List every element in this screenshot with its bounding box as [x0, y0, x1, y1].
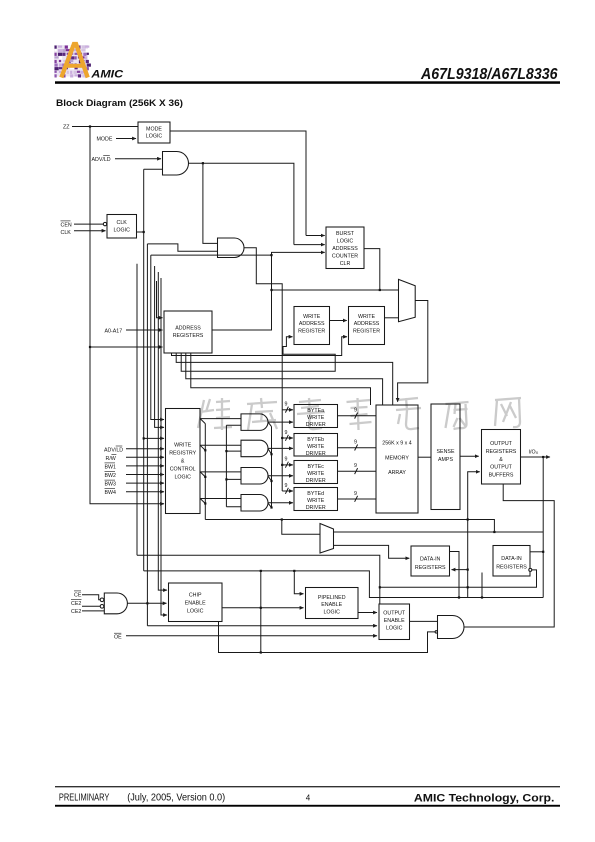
svg-text:9: 9: [354, 491, 357, 497]
svg-text:DRIVER: DRIVER: [306, 505, 326, 511]
wire bus vertical x158.3 to chip enable in1: [158, 272, 167, 590]
wire WAR1 to WAR2: [330, 320, 347, 322]
svg-text:ZZ: ZZ: [63, 124, 70, 130]
svg-text:ENABLE: ENABLE: [185, 601, 206, 607]
wire BW2 in: [126, 474, 164, 476]
BURST LOGIC ADDRESS COUNTER CLR U3: [326, 227, 364, 269]
mux M2: [320, 524, 334, 554]
wire memory to sense: [418, 456, 431, 458]
svg-text:BYTEb: BYTEb: [307, 437, 324, 443]
bubble data-in right clock: [529, 568, 532, 571]
and-gate G2: [218, 238, 245, 258]
wire write registry in from bus: [144, 437, 164, 439]
wire CE2bar in: [82, 605, 100, 607]
SENSE AMPS U13: [431, 404, 460, 510]
wire MODE LOGIC out to burst: [170, 131, 306, 236]
header rule: [55, 81, 560, 84]
svg-text:CHIP: CHIP: [189, 593, 202, 599]
svg-text:DATA-IN: DATA-IN: [501, 556, 522, 562]
svg-text:4: 4: [306, 793, 311, 802]
slash marks memory side: [355, 413, 358, 502]
svg-text:9: 9: [285, 430, 288, 436]
svg-text:CEN: CEN: [61, 222, 72, 228]
wire sense to output registers: [460, 455, 479, 457]
wire CE2 in: [82, 610, 104, 612]
wire 9-bus branches: [282, 409, 293, 411]
wire CLK LOGIC out: [137, 231, 144, 233]
svg-text:9: 9: [285, 457, 288, 463]
BYTEc WRITE DRIVER U10: [294, 461, 338, 485]
BYTEa WRITE DRIVER U8: [294, 405, 338, 429]
label ADV/LD 2: [104, 446, 123, 454]
svg-text:ADDRESS: ADDRESS: [299, 321, 325, 327]
OUTPUT REGISTERS & OUTPUT BUFFERS U14: [482, 430, 521, 485]
wire CE in: [82, 595, 100, 600]
bubble G5 in2: [435, 631, 437, 633]
wire address drop to memory 1: [176, 353, 393, 405]
svg-text:REGISTER: REGISTER: [353, 328, 380, 334]
svg-text:DRIVER: DRIVER: [306, 451, 326, 457]
wire y255 to x271.5: [151, 254, 272, 256]
svg-text:CONTROL: CONTROL: [170, 467, 196, 473]
BYTEd WRITE DRIVER U11: [294, 488, 338, 512]
wire 9-bus from G2: [244, 248, 282, 491]
bubble G4 in2: [100, 605, 104, 609]
wire vertical x467.7: [467, 520, 469, 598]
wire G2 in1 drop: [203, 163, 218, 243]
wire rail x271.5 lower with diagonals: [268, 422, 272, 507]
bubble G4 in1: [100, 598, 104, 602]
and-gate G4 (chip enable input): [104, 593, 127, 614]
svg-text:ENABLE: ENABLE: [384, 618, 405, 624]
and-gate G3c: [241, 468, 268, 485]
label BW3: [105, 480, 117, 488]
wire vertical x260.8: [260, 571, 262, 653]
wire address drop to memory 2: [186, 353, 383, 405]
and-gate G1 (ADV/LD): [163, 152, 189, 176]
wire R/W in: [126, 456, 164, 458]
wire rail x205.3: [204, 424, 206, 520]
svg-text:LOGIC: LOGIC: [323, 609, 340, 615]
and-gate G5 (output enable): [438, 616, 465, 639]
wire ADV/LD in: [115, 158, 161, 160]
svg-text:AMIC Technology, Corp.: AMIC Technology, Corp.: [414, 792, 555, 804]
label ADV/LD: [92, 155, 111, 163]
svg-text:BURST: BURST: [336, 231, 355, 237]
and-gate G3d: [241, 495, 268, 512]
wire G2 in2: [147, 244, 217, 251]
wire G4 out: [128, 602, 167, 604]
svg-text:BUFFERS: BUFFERS: [489, 472, 514, 478]
CLK LOGIC U2: [107, 215, 137, 239]
wire WAR2 lower feed: [172, 337, 348, 356]
ADDRESS REGISTERS U4: [164, 311, 212, 353]
svg-text:WRITE: WRITE: [358, 314, 376, 320]
WRITE REGISTRY & CONTROL LOGIC U7: [166, 409, 201, 514]
wire to address registers in2: [90, 346, 163, 348]
svg-text:ADDRESS: ADDRESS: [175, 326, 201, 332]
svg-text:LOGIC: LOGIC: [386, 625, 403, 631]
svg-text:BW1: BW1: [105, 464, 117, 470]
node ZZ junction: [89, 125, 91, 127]
svg-text:REGISTRY: REGISTRY: [169, 451, 196, 457]
svg-text:WRITE: WRITE: [307, 444, 325, 450]
wire address registers in1 feed: [157, 281, 163, 318]
label CE: [74, 591, 82, 599]
wire data-in right in upper: [531, 551, 544, 553]
wire BURST out: [364, 249, 380, 290]
wire output registers clock in: [205, 472, 479, 520]
wire chip enable bottom to G5 bubble: [219, 622, 436, 653]
svg-text:CLR: CLR: [340, 261, 351, 267]
svg-text:OE: OE: [114, 635, 122, 641]
OUTPUT ENABLE LOGIC U19: [379, 604, 410, 640]
wire address registers out to x271.5: [212, 252, 325, 330]
svg-text:DATA-IN: DATA-IN: [420, 557, 441, 563]
wire bus vertical x154.6: [155, 266, 164, 427]
svg-text:BW2: BW2: [105, 473, 117, 479]
wire MODE: [116, 138, 136, 140]
watermark: [198, 398, 521, 430]
wire bus vertical x147.4: [146, 244, 148, 626]
svg-text:REGISTERS: REGISTERS: [415, 565, 446, 571]
svg-text:A67L9318/A67L8336: A67L9318/A67L8336: [420, 66, 557, 83]
svg-text:BW4: BW4: [105, 490, 117, 496]
svg-text:LOGIC: LOGIC: [337, 239, 354, 245]
wire mux M2 feed branch: [282, 520, 320, 535]
svg-text:PRELIMINARY: PRELIMINARY: [59, 792, 110, 803]
wire A0-A17: [126, 329, 163, 331]
wire pipelined out: [358, 612, 377, 614]
svg-text:AMIC: AMIC: [90, 68, 123, 80]
wire mux M1 feed: [272, 289, 399, 291]
svg-text:REGISTERS: REGISTERS: [486, 449, 517, 455]
svg-text:CE2: CE2: [71, 609, 81, 615]
svg-text:LOGIC: LOGIC: [174, 475, 191, 481]
svg-text:9: 9: [354, 440, 357, 446]
MODE LOGIC U1: [138, 122, 170, 143]
wire G1 in2: [144, 168, 163, 170]
svg-text:LOGIC: LOGIC: [146, 134, 163, 140]
svg-text:9: 9: [285, 483, 288, 489]
svg-text:BYTEd: BYTEd: [307, 491, 324, 497]
svg-text:CE: CE: [74, 592, 82, 598]
wire address drop to memory 3: [191, 353, 371, 405]
wire I/O out: [521, 456, 551, 458]
wire bus vertical x143.7: [143, 169, 145, 571]
svg-text:ADV/LD: ADV/LD: [92, 157, 111, 163]
svg-text:I/OX: I/OX: [529, 449, 539, 455]
svg-text:LOGIC: LOGIC: [187, 608, 204, 614]
wire BW1 in: [126, 465, 164, 467]
svg-text:256K x 9 x 4: 256K x 9 x 4: [382, 441, 411, 447]
svg-text:9: 9: [354, 463, 357, 469]
svg-text:CE2: CE2: [71, 601, 81, 607]
DATA-IN REGISTERS U15: [411, 546, 450, 576]
svg-text:MODE: MODE: [97, 137, 113, 143]
svg-text:&: &: [499, 457, 503, 463]
svg-text:REGISTERS: REGISTERS: [496, 565, 527, 571]
svg-text:ADDRESS: ADDRESS: [332, 246, 358, 252]
DATA-IN REGISTERS U16: [493, 546, 530, 577]
wire vertical x482: [481, 573, 483, 598]
label CEN: [61, 221, 72, 229]
wire data-in left out: [450, 552, 460, 598]
wire gate outs to byte drivers: [268, 421, 293, 423]
svg-text:OUTPUT: OUTPUT: [383, 610, 406, 616]
wire clock line B: [144, 571, 544, 598]
WRITE ADDRESS REGISTER U6: [349, 307, 385, 345]
label BW2: [105, 472, 117, 480]
svg-text:(July, 2005, Version 0.0): (July, 2005, Version 0.0): [127, 792, 225, 803]
svg-text:WRITE: WRITE: [307, 498, 325, 504]
wire mux M2 out to data-in left: [334, 545, 410, 558]
256K x 9 x 4 MEMORY ARRAY U12: [376, 405, 418, 513]
bubble CLK LOGIC in1: [103, 222, 106, 225]
slash marks 9-bus: [285, 407, 288, 494]
svg-text:AMPS: AMPS: [438, 457, 453, 463]
svg-text:ADDRESS: ADDRESS: [354, 321, 380, 327]
AMIC logo: [54, 44, 123, 80]
wire clock line A: [137, 555, 380, 604]
svg-text:WRITE: WRITE: [303, 314, 321, 320]
svg-text:SENSE: SENSE: [437, 449, 455, 455]
wire bus vertical x150.8: [151, 255, 164, 419]
svg-text:LOGIC: LOGIC: [113, 228, 130, 234]
CHIP ENABLE LOGIC U17: [169, 583, 223, 622]
wire to output enable in2: [147, 625, 377, 627]
wire ZZ vertical x90: [90, 127, 164, 504]
svg-text:OUTPUT: OUTPUT: [490, 441, 513, 447]
svg-text:PIPELINED: PIPELINED: [318, 595, 346, 601]
wire WAR1 lower feed: [181, 337, 335, 372]
wire CLK: [74, 230, 106, 232]
wire rail x226.4 gate lower inputs: [226, 425, 241, 507]
wire mux M1 out to memory: [398, 301, 428, 402]
wire mux M2 out upper: [334, 531, 543, 533]
footer rule 1: [55, 786, 560, 787]
mux M1: [399, 279, 416, 321]
BYTEb WRITE DRIVER U9: [294, 434, 338, 457]
wire chip enable out to pipelined: [222, 607, 304, 609]
svg-text:&: &: [181, 459, 185, 465]
wire BW3 in: [126, 482, 164, 484]
wire WAR2 to mux: [385, 317, 399, 319]
wire to data-in right clock: [380, 570, 537, 587]
wire bus vertical x161 to chip enable in3: [161, 278, 167, 615]
wire output enable logic to G5: [410, 620, 438, 622]
svg-text:Block Diagram (256K X 36): Block Diagram (256K X 36): [56, 98, 183, 109]
wire pipelined in1: [294, 571, 303, 594]
svg-text:BW3: BW3: [105, 482, 117, 488]
label CE2bar: [71, 600, 82, 608]
wire write registry outs to gates: [200, 419, 241, 499]
wire bus vertical x137: [136, 264, 138, 556]
svg-text:COUNTER: COUNTER: [332, 254, 358, 260]
wire OE: [126, 635, 377, 637]
svg-text:BYTEc: BYTEc: [307, 464, 324, 470]
WRITE ADDRESS REGISTER U5: [294, 307, 330, 345]
svg-text:REGISTERS: REGISTERS: [173, 333, 204, 339]
svg-text:R/W: R/W: [106, 456, 116, 462]
PIPELINED ENABLE LOGIC U18: [306, 588, 359, 619]
wire I/O branch down: [542, 457, 544, 598]
svg-text:CLK: CLK: [117, 220, 128, 226]
svg-text:OUTPUT: OUTPUT: [490, 465, 513, 471]
svg-text:MODE: MODE: [146, 126, 162, 132]
wire ZZ: [72, 126, 138, 128]
svg-text:9: 9: [285, 402, 288, 408]
svg-text:WRITE: WRITE: [307, 471, 325, 477]
svg-text:CLK: CLK: [61, 230, 72, 236]
wire byte drivers to memory: [338, 416, 377, 499]
footer rule 2: [55, 805, 560, 807]
wire data-in left clock in: [452, 569, 468, 571]
svg-text:A0-A17: A0-A17: [105, 328, 123, 334]
label R/W: [106, 454, 117, 462]
svg-text:ADV/LD: ADV/LD: [104, 448, 123, 454]
svg-text:REGISTER: REGISTER: [298, 328, 325, 334]
svg-text:ENABLE: ENABLE: [321, 602, 342, 608]
and-gate G3b: [241, 440, 268, 457]
label BW1: [105, 463, 117, 471]
and-gate G3a: [241, 414, 268, 431]
wire G1 out: [189, 163, 294, 244]
svg-text:ARRAY: ARRAY: [388, 470, 406, 476]
svg-text:DRIVER: DRIVER: [306, 478, 326, 484]
svg-text:WRITE: WRITE: [174, 443, 192, 449]
label BW4: [105, 489, 117, 497]
wire BW4 in: [126, 491, 164, 493]
wire G5 out up to output buffers: [464, 484, 554, 627]
svg-text:MEMORY: MEMORY: [385, 456, 409, 462]
wire CEN: [74, 223, 103, 225]
wire ADV/LD 2 in: [126, 448, 164, 450]
label OE: [114, 633, 122, 641]
